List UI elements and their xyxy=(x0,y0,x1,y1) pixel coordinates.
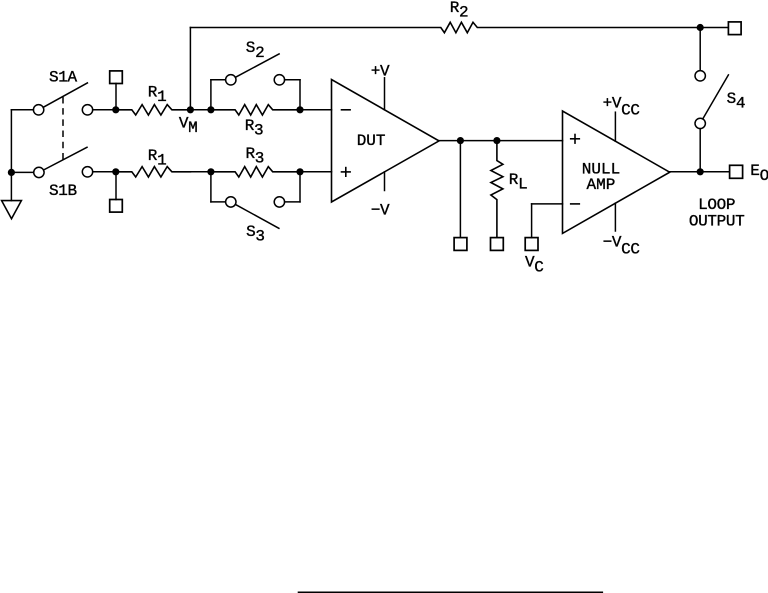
supply +V (DUT) xyxy=(371,63,390,110)
wire top feedback rail with resistor R2 xyxy=(190,0,728,33)
node junction row2 xyxy=(112,168,119,175)
node VM xyxy=(179,106,198,137)
svg-text:+V: +V xyxy=(371,63,390,81)
footer rule xyxy=(298,592,603,593)
switch S1B xyxy=(34,147,87,200)
svg-text:LOOP: LOOP xyxy=(698,196,735,214)
terminal square top right xyxy=(728,22,741,35)
node junction row2 b xyxy=(207,168,214,175)
node junction output b xyxy=(493,137,500,144)
op-amp NULL AMP U2 xyxy=(563,111,670,233)
dashed gang link S1A-S1B xyxy=(62,98,64,159)
wire stub to S1B xyxy=(11,171,33,173)
resistor RL xyxy=(491,141,527,238)
ground xyxy=(2,201,22,219)
wire VM to top rail xyxy=(189,28,191,110)
terminal square RL xyxy=(491,238,504,251)
switch S4 xyxy=(695,28,745,172)
svg-text:DUT: DUT xyxy=(357,132,386,150)
terminal square row1 xyxy=(110,71,123,110)
op-amp DUT xyxy=(332,80,440,203)
node junction top rail xyxy=(697,24,704,31)
label LOOP OUTPUT xyxy=(689,196,745,230)
supply -VCC (NULL AMP) xyxy=(603,203,640,258)
svg-text:−V: −V xyxy=(371,202,390,220)
switch S3 xyxy=(211,172,300,246)
wire DUT output to NULL AMP xyxy=(439,140,563,142)
svg-text:S1A: S1A xyxy=(49,69,78,87)
resistor R3 (bottom) xyxy=(211,145,300,177)
svg-text:AMP: AMP xyxy=(587,176,616,194)
terminal E0 xyxy=(730,162,768,185)
node junction row1 c xyxy=(296,106,303,113)
node junction output a xyxy=(457,137,464,144)
supply +VCC (NULL AMP) xyxy=(603,94,640,141)
wire row1 to DUT xyxy=(300,109,332,111)
wire row1 input xyxy=(93,109,116,111)
terminal square output a xyxy=(454,238,467,251)
node input terminal row2 xyxy=(82,167,92,177)
node junction row2 c xyxy=(296,168,303,175)
wire left vertical bus xyxy=(10,110,12,201)
resistor R1 (top) xyxy=(116,84,191,115)
resistor R3 (top) xyxy=(211,105,300,140)
node junction S1B xyxy=(8,169,15,176)
wire R1 to R3 row2 xyxy=(190,171,211,173)
node input terminal row1 xyxy=(82,105,92,115)
node junction row1 b xyxy=(207,106,214,113)
node junction row1 xyxy=(112,106,119,113)
wire row2 to DUT xyxy=(300,171,332,173)
node output junction xyxy=(697,168,704,175)
terminal square row2 xyxy=(110,172,123,212)
supply -V (DUT) xyxy=(371,172,390,220)
svg-text:S1B: S1B xyxy=(49,182,77,200)
wire NULL AMP output xyxy=(670,171,730,173)
svg-text:OUTPUT: OUTPUT xyxy=(689,212,745,230)
switch S1A xyxy=(33,69,87,115)
switch S2 xyxy=(211,39,300,110)
wire to terminal xyxy=(459,141,461,238)
wire left stub to S1A xyxy=(11,109,33,111)
wire VM to R3 xyxy=(190,109,211,111)
resistor R1 (bottom) xyxy=(116,147,191,177)
terminal VC xyxy=(525,204,563,277)
wire row2 input xyxy=(93,171,116,173)
